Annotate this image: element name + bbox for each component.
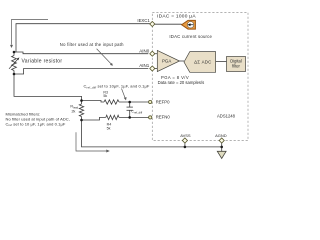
svg-text:AVSS: AVSS	[180, 133, 191, 138]
svg-text:REFP0: REFP0	[156, 99, 170, 104]
svg-text:Data rate = 20 samples/s: Data rate = 20 samples/s	[158, 80, 205, 85]
svg-text:AIN0: AIN0	[139, 48, 150, 53]
svg-text:ΔΣ ADC: ΔΣ ADC	[194, 59, 211, 64]
svg-text:5k: 5k	[103, 94, 107, 98]
svg-text:IDAC current source: IDAC current source	[169, 34, 212, 39]
svg-text:IDAC = 1000 µA: IDAC = 1000 µA	[157, 14, 196, 20]
svg-text:ADS1248: ADS1248	[217, 114, 236, 119]
svg-text:Variable resistor: Variable resistor	[22, 59, 63, 65]
svg-text:Cref_diff: Cref_diff	[131, 110, 142, 115]
svg-text:Rlead: Rlead	[70, 105, 78, 110]
svg-text:5k: 5k	[107, 127, 111, 131]
svg-text:filter: filter	[232, 63, 240, 68]
svg-text:IEXC1: IEXC1	[137, 18, 150, 23]
svg-text:2k: 2k	[71, 110, 75, 114]
svg-text:Cref_diff set to 10µF, 1µF, an: Cref_diff set to 10µF, 1µF, and 0.1µF	[84, 84, 150, 90]
svg-text:Cref set to 10 µF, 1µF, and 0.: Cref set to 10 µF, 1µF, and 0.1µF	[6, 121, 66, 127]
svg-text:AIN1: AIN1	[139, 63, 150, 68]
svg-text:No filter used at the input pa: No filter used at the input path	[60, 42, 124, 47]
svg-text:REFN0: REFN0	[156, 115, 171, 120]
svg-text:PGA: PGA	[162, 59, 171, 64]
svg-text:AGND: AGND	[215, 133, 227, 138]
